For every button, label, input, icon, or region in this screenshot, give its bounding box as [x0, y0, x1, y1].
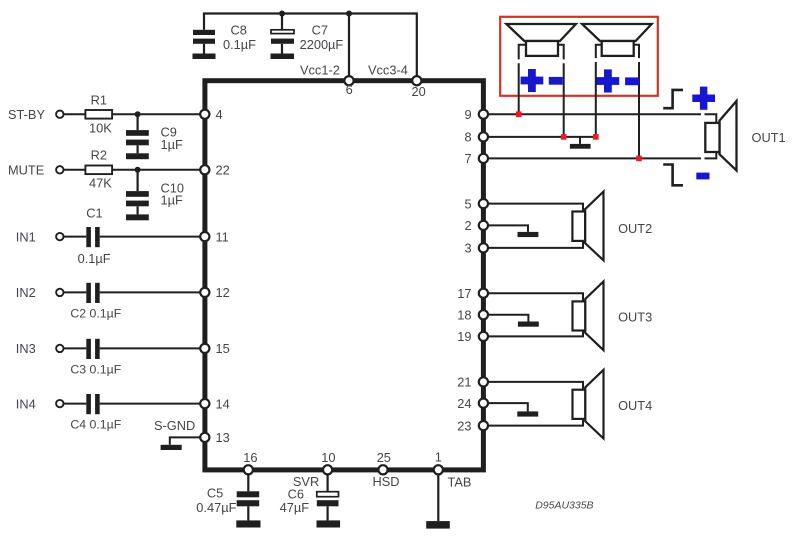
svg-text:6: 6 — [346, 82, 353, 97]
svg-text:2200µF: 2200µF — [300, 37, 344, 52]
svg-text:C5: C5 — [207, 486, 223, 501]
svg-text:TAB: TAB — [448, 475, 472, 490]
pin 3 — [465, 241, 489, 256]
minus symbol right speaker — [625, 77, 639, 85]
node junction dot pin6 drop — [346, 11, 352, 17]
ground under C6 — [317, 520, 341, 527]
node IN4 terminal — [16, 396, 64, 411]
wire pin 3 to OUT2 speaker — [488, 241, 583, 248]
node junction dot C7 tap — [279, 11, 285, 17]
plus symbol right speaker — [597, 69, 620, 92]
svg-text:10K: 10K — [89, 121, 112, 136]
svg-text:OUT2: OUT2 — [618, 221, 652, 236]
svg-text:OUT4: OUT4 — [618, 398, 652, 413]
svg-text:Vcc1-2: Vcc1-2 — [300, 62, 340, 77]
svg-text:15: 15 — [216, 341, 230, 356]
wire right speaker - lead (dashed) — [634, 45, 639, 159]
pin 6 — [344, 76, 353, 97]
pin 16 — [243, 450, 257, 474]
svg-text:23: 23 — [457, 418, 471, 433]
svg-text:8: 8 — [465, 130, 472, 145]
svg-text:C1: C1 — [86, 206, 102, 221]
svg-text:9: 9 — [465, 107, 472, 122]
ground on pin 2 net — [518, 232, 539, 237]
svg-text:C2 0.1µF: C2 0.1µF — [70, 306, 121, 320]
capacitor C8 — [193, 22, 256, 53]
node red dot pin8 net left — [561, 134, 567, 140]
capacitor C5 — [196, 474, 259, 520]
pin 24 — [457, 396, 488, 411]
speaker OUT2 — [572, 192, 652, 261]
node red dot pin7 net — [636, 156, 642, 162]
wire pin 18 ground stub — [488, 315, 528, 322]
resistor R2 — [85, 148, 112, 191]
svg-text:S-GND: S-GND — [154, 418, 195, 433]
pin 1 — [434, 450, 443, 475]
svg-text:22: 22 — [216, 163, 230, 178]
node IN2 terminal — [16, 285, 64, 300]
step symbol turn-on (top) — [663, 90, 683, 108]
pin 22 — [200, 163, 230, 178]
pin 11 — [200, 229, 229, 244]
ground under C10 — [126, 214, 149, 220]
svg-text:C3 0.1µF: C3 0.1µF — [70, 362, 121, 376]
wire pin 17 to OUT3 speaker — [488, 293, 583, 301]
pin 4 — [200, 107, 222, 122]
svg-text:R2: R2 — [91, 148, 107, 163]
svg-text:17: 17 — [457, 286, 471, 301]
pin 20 — [412, 76, 426, 99]
capacitor C9 — [126, 114, 183, 153]
speaker OUT4 — [573, 370, 653, 439]
node red dot pin9 net — [516, 111, 522, 117]
svg-text:Vcc3-4: Vcc3-4 — [368, 62, 408, 77]
wire pin 9 to OUT1 speaker — [488, 114, 716, 123]
plus symbol OUT1 — [692, 87, 715, 110]
wire left speaker - lead (dashed) — [558, 45, 564, 137]
svg-text:12: 12 — [216, 285, 230, 300]
ground under C9 — [126, 153, 149, 159]
pin 12 — [200, 285, 230, 300]
svg-text:ST-BY: ST-BY — [8, 107, 45, 122]
svg-text:R1: R1 — [91, 93, 107, 108]
pin 15 — [200, 341, 230, 356]
resistor R1 — [85, 93, 112, 136]
svg-text:0.1µF: 0.1µF — [223, 37, 256, 52]
ground under C7 — [271, 54, 295, 60]
pin 7 — [465, 151, 489, 166]
pin 8 — [465, 130, 489, 145]
pin 10 — [321, 450, 335, 474]
capacitor C6 (polarized) — [280, 474, 339, 520]
wire R2 to pin 22 — [112, 169, 200, 171]
svg-text:IN4: IN4 — [16, 396, 36, 411]
wire TAB to ground — [437, 474, 439, 521]
pin 23 — [457, 418, 488, 433]
svg-text:1µF: 1µF — [161, 137, 183, 152]
svg-text:D95AU335B: D95AU335B — [535, 500, 593, 512]
svg-text:1: 1 — [435, 450, 442, 465]
svg-text:21: 21 — [457, 375, 471, 390]
wire right speaker + lead (dashed) — [596, 45, 602, 137]
svg-text:47K: 47K — [89, 176, 112, 191]
ground on pin 24 net — [517, 411, 538, 416]
svg-text:0.47µF: 0.47µF — [196, 500, 236, 515]
ground on pin 8 net — [570, 144, 591, 149]
svg-text:IN3: IN3 — [16, 341, 36, 356]
svg-text:3: 3 — [465, 241, 472, 256]
ground under C8 — [193, 54, 216, 60]
pin 2 — [465, 218, 489, 233]
node red dot pin8 net right — [593, 134, 599, 140]
wire pin13 to ground — [170, 437, 200, 444]
pin 19 — [457, 329, 488, 344]
pin 5 — [465, 196, 489, 211]
svg-text:OUT1: OUT1 — [752, 130, 786, 145]
pin 9 — [465, 107, 489, 122]
wire pin 8 — [488, 136, 596, 138]
speaker OUT1 — [705, 101, 785, 171]
node ST-BY terminal — [8, 107, 64, 122]
svg-text:47µF: 47µF — [280, 500, 310, 515]
wire ST-BY to R1 — [64, 113, 86, 115]
wire R1 to pin 4 — [112, 113, 200, 115]
minus symbol OUT1 — [696, 173, 709, 180]
capacitor C3 — [64, 339, 201, 377]
svg-text:13: 13 — [216, 430, 230, 445]
wire pin 5 to OUT2 speaker — [488, 204, 583, 212]
svg-text:14: 14 — [216, 396, 230, 411]
wire ground stub on pin 8 net — [579, 137, 581, 144]
op-amp U1 IC body outline — [205, 81, 484, 470]
pin 25 — [377, 450, 391, 474]
node junction dot C9 tap — [135, 111, 141, 117]
ground under TAB — [426, 521, 450, 529]
wire pin 2 ground stub — [488, 225, 528, 232]
node IN1 terminal — [16, 229, 64, 244]
step symbol turn-off (bottom) — [663, 165, 683, 186]
svg-text:1µF: 1µF — [161, 192, 183, 207]
plus symbol left speaker — [521, 69, 544, 92]
pin 17 — [457, 286, 488, 301]
svg-text:IN1: IN1 — [16, 229, 36, 244]
pin 14 — [200, 396, 230, 411]
capacitor C4 — [64, 394, 201, 431]
svg-text:18: 18 — [457, 308, 471, 323]
svg-text:10: 10 — [321, 450, 335, 465]
svg-text:C4 0.1µF: C4 0.1µF — [70, 417, 121, 431]
node IN3 terminal — [16, 341, 64, 356]
wire pin 24 ground stub — [488, 403, 528, 411]
svg-text:OUT3: OUT3 — [618, 310, 652, 325]
svg-text:20: 20 — [412, 84, 426, 99]
svg-text:16: 16 — [243, 450, 257, 465]
ground S-GND — [161, 445, 182, 450]
svg-text:MUTE: MUTE — [8, 163, 44, 178]
svg-text:11: 11 — [216, 229, 229, 244]
svg-text:2: 2 — [465, 218, 472, 233]
svg-text:4: 4 — [216, 107, 223, 122]
ground on pin 18 net — [518, 322, 539, 327]
ground under C5 — [236, 520, 260, 527]
red reference box — [500, 17, 658, 96]
wire pin 23 to OUT4 speaker — [488, 419, 583, 426]
svg-text:HSD: HSD — [373, 474, 400, 489]
svg-text:7: 7 — [465, 151, 472, 166]
wire left speaker + lead (dashed) — [519, 45, 526, 115]
svg-text:0.1µF: 0.1µF — [78, 251, 111, 266]
svg-text:19: 19 — [457, 329, 471, 344]
svg-text:C8: C8 — [231, 22, 247, 37]
wire top supply rail — [204, 14, 417, 79]
capacitor C2 — [64, 283, 201, 321]
svg-text:IN2: IN2 — [16, 285, 36, 300]
svg-text:24: 24 — [457, 396, 471, 411]
node MUTE terminal — [8, 163, 64, 178]
node junction dot C10 tap — [135, 167, 141, 173]
speaker right in red box — [582, 24, 652, 56]
minus symbol left speaker — [549, 77, 563, 85]
pin 13 — [200, 430, 230, 445]
wire pin 19 to OUT3 speaker — [488, 331, 583, 337]
capacitor C10 — [126, 170, 184, 215]
svg-text:25: 25 — [377, 450, 391, 465]
speaker left in red box — [506, 24, 576, 56]
capacitor C7 (polarized) — [271, 14, 343, 54]
svg-text:C7: C7 — [312, 22, 328, 37]
capacitor C1 — [64, 206, 201, 267]
pin 21 — [457, 375, 488, 390]
wire pin 7 to OUT1 speaker — [488, 152, 716, 158]
speaker OUT3 — [573, 282, 653, 351]
wire pin 21 to OUT4 speaker — [488, 382, 583, 390]
svg-text:5: 5 — [465, 196, 472, 211]
wire MUTE to R2 — [64, 169, 86, 171]
pin 18 — [457, 308, 488, 323]
